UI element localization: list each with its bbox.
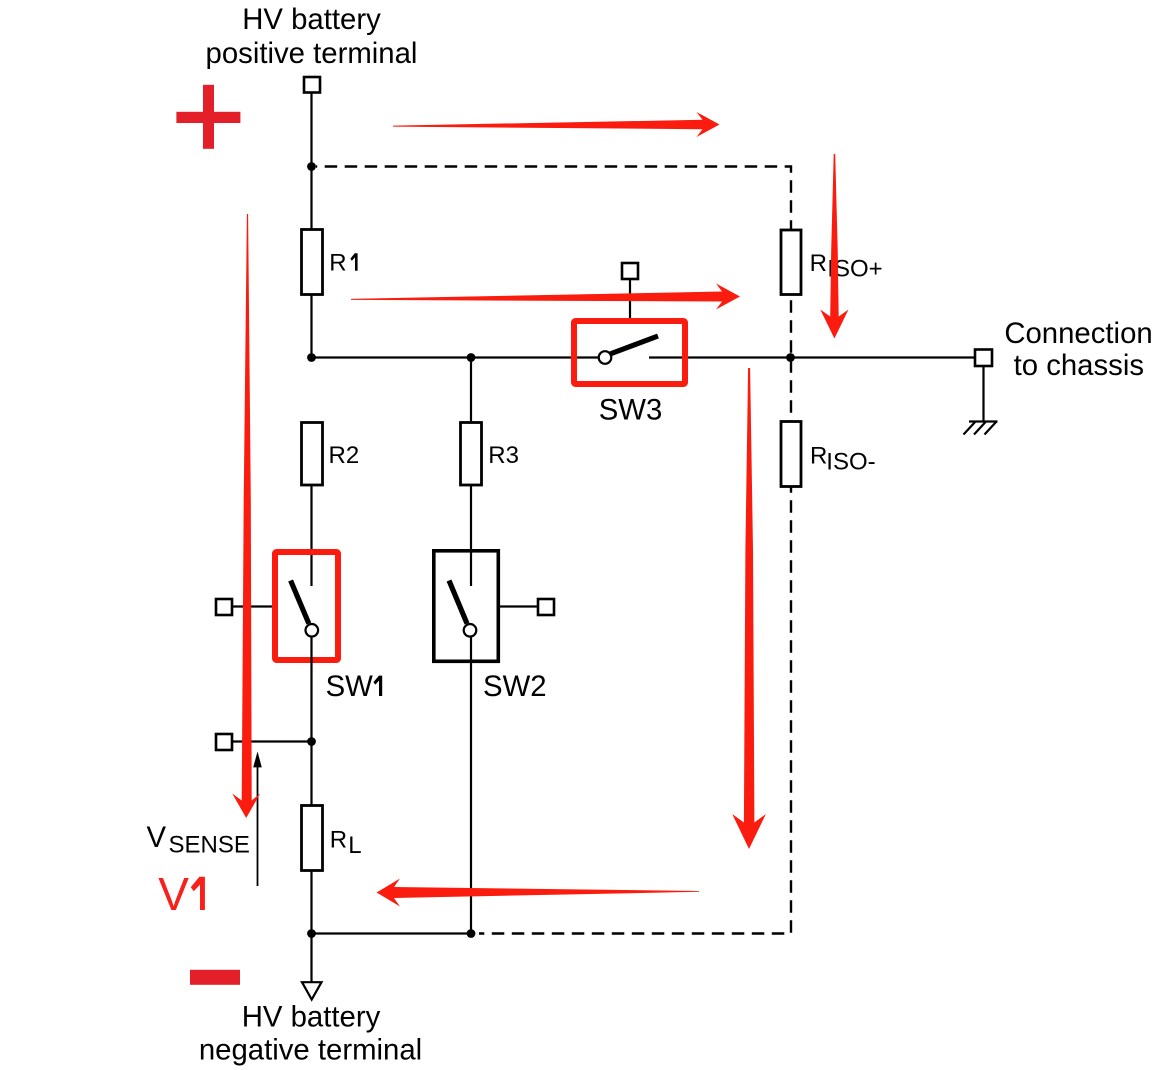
svg-text:SW: SW xyxy=(326,670,374,703)
dashed isolation boundary xyxy=(316,167,791,934)
node connection to chassis label xyxy=(1004,317,1152,382)
switch SW2 box xyxy=(434,551,499,662)
wire sense square to node xyxy=(232,740,312,742)
svg-text:R: R xyxy=(810,442,827,469)
arrow VSENSE reference (thin black up) xyxy=(253,752,262,887)
svg-text:SW3: SW3 xyxy=(599,394,663,427)
wire bottom bus xyxy=(312,932,472,934)
wire SW3 control xyxy=(629,279,631,318)
current arrow 1 top (right) xyxy=(393,112,720,137)
resistor R3 xyxy=(461,423,519,486)
svg-text:SENSE: SENSE xyxy=(169,832,250,859)
terminal square chassis xyxy=(975,350,992,367)
switch SW3 blade xyxy=(610,336,658,354)
current arrow 4 isolation (down) xyxy=(732,368,766,849)
switch SW1 highlighted box xyxy=(275,552,338,660)
current arrow 6 left side (down) xyxy=(232,214,260,818)
svg-text:positive terminal: positive terminal xyxy=(206,37,418,70)
wire SW1 control xyxy=(232,605,272,607)
wire R1 to mid node xyxy=(310,295,312,358)
wire SW2 to bottom node xyxy=(470,637,472,934)
wire SW1 to sense node xyxy=(310,637,312,742)
wire RL to bottom node xyxy=(310,871,312,983)
current arrow 5 bottom (left) xyxy=(377,879,700,907)
terminal negative triangle xyxy=(302,982,322,999)
node HV battery negative terminal label xyxy=(199,1000,422,1066)
switch SW1 blade xyxy=(291,581,309,624)
svg-text:Connection: Connection xyxy=(1004,317,1152,350)
resistor R2 xyxy=(302,423,360,486)
svg-text:SW2: SW2 xyxy=(483,670,547,703)
wire RL top xyxy=(310,742,312,806)
svg-text:R: R xyxy=(329,250,346,277)
minus polarity symbol xyxy=(190,970,240,985)
terminal square sense xyxy=(216,734,232,750)
svg-text:ISO-: ISO- xyxy=(826,448,875,475)
node junction at isolation boundary xyxy=(786,353,795,362)
node VSENSE label xyxy=(147,821,250,859)
svg-text:V: V xyxy=(147,821,167,854)
resistor R1 xyxy=(302,230,358,295)
node junction top xyxy=(307,162,316,171)
svg-text:V: V xyxy=(158,868,189,920)
svg-text:R2: R2 xyxy=(329,442,360,469)
plus polarity symbol xyxy=(176,85,240,149)
resistor RL xyxy=(302,806,362,871)
switch SW1 control square xyxy=(216,599,232,615)
wire SW2 control xyxy=(500,605,538,607)
switch SW3 pivot xyxy=(599,351,612,364)
switch SW2 control square xyxy=(538,599,554,615)
switch SW2 pivot xyxy=(464,624,477,637)
wire R3 top xyxy=(470,358,472,423)
switch SW2 blade xyxy=(449,581,467,624)
wire R2 into SW1 xyxy=(310,485,312,586)
svg-text:HV battery: HV battery xyxy=(242,1000,381,1033)
wire R3 into SW2 xyxy=(470,485,472,586)
svg-text:R: R xyxy=(330,827,347,854)
resistor RISO- xyxy=(781,422,876,487)
ground chassis symbol xyxy=(964,422,998,435)
wire chassis square to ground xyxy=(982,366,984,422)
current arrow 2 mid (right) xyxy=(351,284,740,310)
svg-text:to chassis: to chassis xyxy=(1014,349,1144,382)
wire positive terminal to R1 xyxy=(310,93,312,231)
switch SW1 pivot xyxy=(306,624,319,637)
node junction bottom left xyxy=(307,929,316,938)
svg-text:R3: R3 xyxy=(488,442,519,469)
wire SW3 contact to chassis xyxy=(649,356,975,358)
node junction sense xyxy=(307,737,316,746)
node junction R3 branch xyxy=(467,353,476,362)
node V1 label xyxy=(158,868,205,920)
svg-text:L: L xyxy=(348,832,361,859)
svg-text:HV battery: HV battery xyxy=(242,3,381,36)
switch SW3 highlighted box xyxy=(574,321,685,384)
node junction mid left xyxy=(307,353,316,362)
current arrow 3 RISO+ (down) xyxy=(820,154,848,339)
svg-text:negative terminal: negative terminal xyxy=(199,1034,422,1067)
switch SW3 control terminal square xyxy=(622,263,638,279)
node junction bottom SW2 xyxy=(467,929,476,938)
svg-text:R: R xyxy=(810,250,827,277)
resistor RISO+ xyxy=(781,230,883,295)
wire mid horizontal bus left of SW3 xyxy=(312,356,599,358)
terminal square positive xyxy=(304,77,320,93)
node HV battery positive terminal label xyxy=(206,3,418,70)
